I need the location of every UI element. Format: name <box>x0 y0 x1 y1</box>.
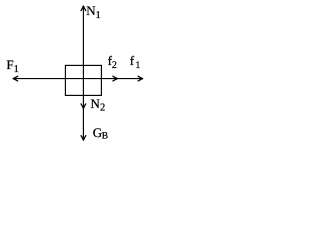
arrowhead N1 (up, tip top of vertical line) <box>81 6 86 11</box>
svg-text:1: 1 <box>135 60 140 71</box>
label GB (weight of block B) <box>93 125 108 141</box>
arrowhead f1 (right, at right end) <box>138 76 143 81</box>
svg-text:F: F <box>6 57 13 72</box>
label F1 (applied force left) <box>6 57 18 75</box>
arrowhead F1 (left, tip at left end of horizontal line) <box>13 76 18 81</box>
svg-text:G: G <box>93 125 102 140</box>
label N1 (normal force up) <box>86 3 100 21</box>
label f2 (friction force right, mid) <box>108 53 117 71</box>
svg-text:B: B <box>102 131 108 141</box>
block B (square box) <box>65 65 101 95</box>
wire: vertical force line through block (N1 up, N2 and GB down) <box>82 6 84 139</box>
svg-text:f: f <box>130 53 135 68</box>
arrowhead GB (down, at bottom end) <box>81 136 86 141</box>
wire: horizontal force line through block (F1 left, f2 and f1 right) <box>13 78 142 80</box>
svg-text:1: 1 <box>96 10 101 21</box>
arrowhead f2 (right, mid-line) <box>113 76 118 81</box>
svg-text:1: 1 <box>14 64 19 75</box>
arrowhead N2 (down, mid-line below block) <box>81 104 86 109</box>
label f1 (friction force right, end) <box>130 53 141 71</box>
label N2 (normal force down) <box>91 96 106 114</box>
svg-text:2: 2 <box>112 60 117 71</box>
svg-text:N: N <box>91 96 101 111</box>
svg-text:2: 2 <box>100 103 105 114</box>
